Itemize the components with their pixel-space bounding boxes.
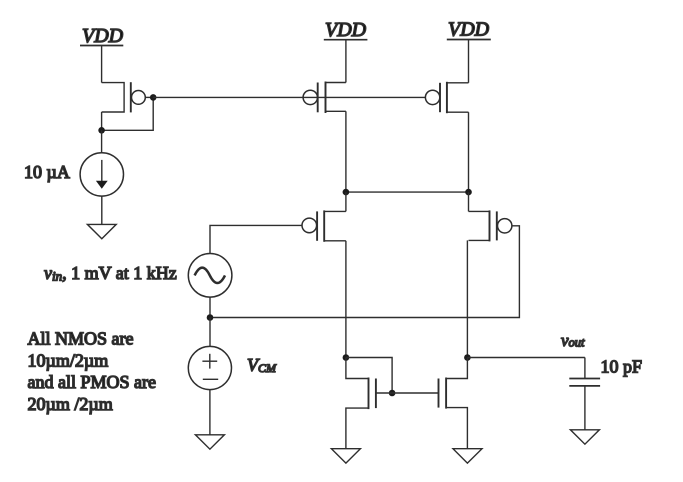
VDD rail 2 (top-middle) xyxy=(324,19,368,41)
pmos M4 (mirror, top-right) xyxy=(425,82,468,113)
nmos M5 (diode-connected, gate on right) xyxy=(369,378,376,410)
pmos M1 top-left diode-connected xyxy=(102,82,154,112)
wire M5 source to ground xyxy=(346,408,369,449)
pmos M2b (input pair right) xyxy=(469,210,512,241)
wire M5-M6 gate line xyxy=(376,392,439,394)
wire node B to node C (tail rail) xyxy=(346,191,469,193)
svg-text:VDD: VDD xyxy=(82,25,124,47)
ground (below VCM) xyxy=(195,435,224,449)
pmos M3 (mirror, top-middle) xyxy=(303,82,346,114)
label VCM xyxy=(247,355,277,375)
wire node D to M5 drain xyxy=(346,358,369,379)
node E junction dot xyxy=(464,354,471,361)
capacitor C1 10 pF xyxy=(569,379,600,386)
svg-text:VDD: VDD xyxy=(325,19,367,41)
VDD rail 1 (top-left) xyxy=(80,25,124,47)
node F junction dot xyxy=(207,314,214,321)
ground (below current source) xyxy=(87,224,116,238)
wire current source to ground xyxy=(101,196,103,224)
wire M3 drain to node B xyxy=(345,111,347,192)
svg-text:20µm /2µm: 20µm /2µm xyxy=(28,394,113,414)
wire node F to VCM source xyxy=(209,318,211,347)
wire gate bus to M3 and M4 xyxy=(153,96,425,98)
pmos M2a (input pair left) xyxy=(302,210,346,241)
current source I1 10 uA xyxy=(80,153,123,196)
label vout xyxy=(561,331,585,350)
wire M6 source to ground xyxy=(446,408,467,449)
note text block xyxy=(28,329,156,414)
wire VDD3 to M4 source xyxy=(468,40,470,83)
wire node E to M6 drain xyxy=(446,358,467,379)
node G junction dot (gate tie) xyxy=(389,390,396,397)
wire M2b gate to common-mode line xyxy=(210,226,519,318)
label vin, 1 mV at 1 kHz xyxy=(44,263,177,284)
wire VDD2 to M3 source xyxy=(345,40,347,83)
svg-text:All NMOS are: All NMOS are xyxy=(28,329,134,349)
svg-text:VDD: VDD xyxy=(448,19,490,41)
wire M2a drain down to node D xyxy=(345,241,347,358)
svg-text:10 µA: 10 µA xyxy=(24,162,70,182)
nmos M6 (gate on left) xyxy=(439,378,447,409)
wire VDD1 to M1 source xyxy=(101,46,103,83)
wire M1 gate feedback to node A xyxy=(102,97,154,130)
node B junction dot xyxy=(343,189,350,196)
svg-text:VCM: VCM xyxy=(247,355,277,375)
VDD rail 3 (top-right) xyxy=(447,19,491,41)
wire vin top to M2a gate xyxy=(210,225,302,253)
node D junction dot xyxy=(343,354,350,361)
wire output to capacitor top xyxy=(584,358,586,379)
svg-text:10µm/2µm: 10µm/2µm xyxy=(28,350,109,370)
wire capacitor bottom to ground xyxy=(584,386,586,430)
wire M2b drain down to node E xyxy=(466,240,468,357)
wire M4 drain to node C xyxy=(468,112,470,192)
wire node D to M5 gate feed xyxy=(346,358,392,394)
wire node A to current source xyxy=(101,130,103,152)
wire node E to output / capacitor xyxy=(467,357,585,359)
svg-text:vin, 1 mV at 1 kHz: vin, 1 mV at 1 kHz xyxy=(44,263,177,284)
wire M1 drain to node A xyxy=(101,112,103,130)
wire vin bottom to node F xyxy=(209,297,211,317)
node A (M1 drain junction dot) xyxy=(98,127,105,134)
svg-text:10 pF: 10 pF xyxy=(601,357,643,377)
wire node B to M2a source xyxy=(345,192,347,211)
ground (below M5) xyxy=(331,449,360,463)
svg-text:vout: vout xyxy=(561,331,585,350)
ground (below M6) xyxy=(453,449,482,463)
vin source (sine) xyxy=(188,253,232,297)
ground (below capacitor) xyxy=(570,430,599,444)
wire node C to M2b source xyxy=(468,192,470,211)
wire VCM to ground xyxy=(209,390,211,435)
label 10 pF xyxy=(601,357,643,377)
svg-text:and all PMOS are: and all PMOS are xyxy=(28,372,156,392)
node gate-bus junction dot xyxy=(150,94,157,101)
node C junction dot xyxy=(465,189,472,196)
label 10 uA xyxy=(24,162,70,182)
VCM source xyxy=(188,346,231,389)
